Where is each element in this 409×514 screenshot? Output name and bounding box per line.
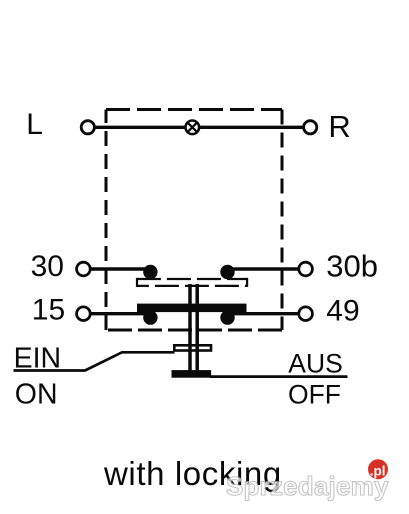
svg-text:.pl: .pl (370, 463, 386, 478)
EIN lever line (14, 352, 175, 370)
terminal 15 (77, 307, 91, 321)
svg-text:ON: ON (15, 378, 58, 410)
open bridge (dashed rectangle) (137, 278, 247, 287)
terminal 49 (299, 307, 313, 321)
terminal 30 (77, 262, 91, 276)
terminal 30b (299, 262, 313, 276)
contact dot 30 (143, 265, 157, 279)
locking detent rectangle (174, 344, 211, 352)
svg-text:L: L (26, 108, 43, 141)
contact dot 49 (220, 310, 234, 324)
svg-text:49: 49 (326, 295, 359, 328)
wire L to R (96, 126, 303, 129)
wire contact to 49 (227, 312, 298, 315)
svg-text:EIN: EIN (14, 342, 62, 374)
terminal L (81, 121, 94, 134)
lamp E1 (186, 121, 200, 135)
wire contact to 30b (227, 267, 298, 270)
wire 30 to contact (91, 267, 152, 270)
svg-text:OFF: OFF (288, 380, 341, 410)
contact dot 30b (220, 265, 234, 279)
switch housing dashed box (106, 110, 282, 331)
contact dot 15 (143, 310, 157, 324)
actuator shaft (190, 284, 197, 372)
terminal R (304, 121, 317, 134)
wire 15 to contact (91, 312, 152, 315)
watermark .pl badge (368, 459, 388, 479)
AUS line (210, 375, 348, 378)
closed bridge bar (137, 304, 247, 313)
svg-text:30: 30 (31, 250, 64, 283)
actuator knob bar (172, 370, 212, 378)
svg-text:15: 15 (32, 294, 65, 327)
svg-text:AUS: AUS (288, 349, 343, 379)
svg-text:R: R (328, 109, 350, 144)
svg-text:Sprzedajemy: Sprzedajemy (226, 471, 389, 501)
svg-text:30b: 30b (326, 248, 378, 283)
